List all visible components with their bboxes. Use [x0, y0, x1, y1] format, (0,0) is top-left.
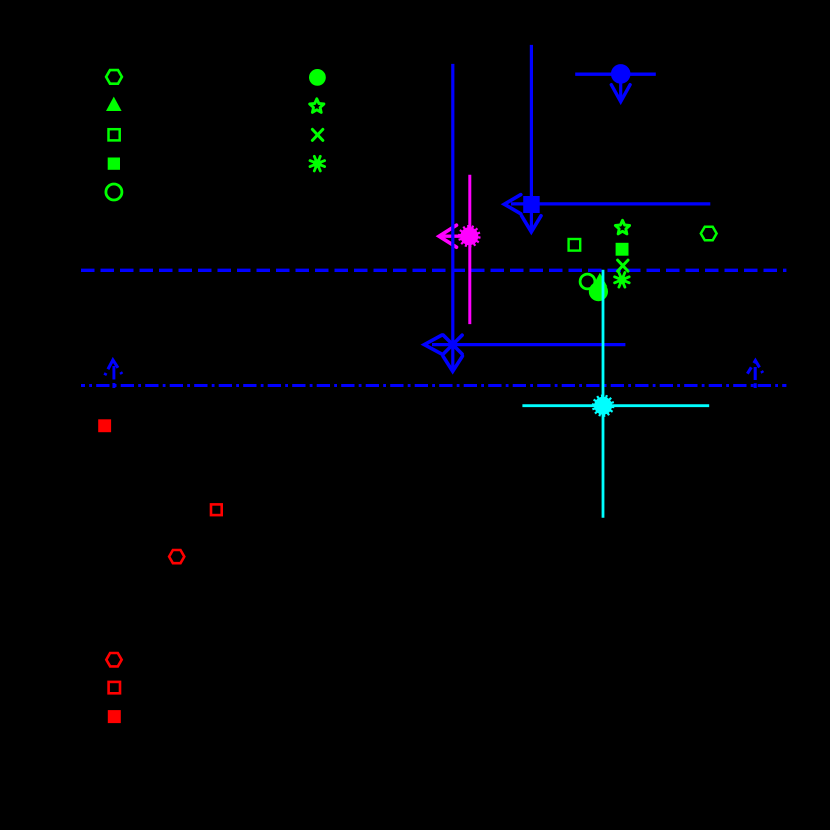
- blue square point: horizontal line to the right: [511, 202, 710, 205]
- blue square point: vertical error line: [530, 45, 533, 231]
- red data: open square (bottom): [109, 682, 120, 693]
- green data: filled square: [616, 243, 629, 256]
- red data: filled square (top): [98, 419, 111, 432]
- legend marker: green X cross: [312, 129, 322, 140]
- blue lower-limit up arrow (left): stem: [112, 366, 115, 388]
- blue lower-limit up arrow (right): head (dash-dot fragmented): [746, 361, 764, 376]
- green data: filled triangle: [592, 273, 607, 287]
- blue square point: down arrow head: [522, 216, 541, 232]
- legend marker: green open circle: [106, 184, 122, 200]
- legend marker: green open square: [109, 129, 120, 140]
- legend marker: green open hexagon: [106, 70, 122, 84]
- blue X point: horizontal line to the right: [432, 343, 625, 346]
- magenta point: left arrow stem: [441, 234, 461, 237]
- blue X point: vertical error line: [451, 64, 454, 370]
- red data: filled square (bottom): [108, 710, 121, 723]
- magenta point: sun marker (filled circle with spikes): [460, 227, 478, 245]
- blue X point: X marker: [443, 335, 462, 354]
- green data: open star: [615, 220, 629, 234]
- legend marker: green filled triangle: [106, 97, 122, 111]
- cyan point: horizontal error bar: [522, 404, 709, 407]
- legend marker: green 8-ray asterisk: [310, 156, 325, 171]
- green data: open circle: [580, 274, 595, 289]
- legend marker: green filled square: [108, 158, 120, 170]
- red data: open square (middle): [211, 504, 222, 515]
- blue X point: left arrow head: [424, 335, 442, 354]
- green data: filled circle: [589, 282, 608, 301]
- legend marker: green filled circle: [309, 69, 326, 86]
- cyan point: vertical error bar: [602, 270, 605, 518]
- blue X point: down arrow head: [443, 356, 462, 371]
- blue upper-limit point: down arrow stem: [619, 74, 622, 101]
- green data: X cross: [618, 260, 628, 271]
- blue dashed horizontal line: [81, 269, 786, 272]
- magenta point: vertical error line: [468, 175, 471, 324]
- green data: 8-ray asterisk: [615, 273, 630, 288]
- blue upper-limit point: down arrow head: [611, 85, 630, 102]
- blue upper-limit point: horizontal error bar: [575, 72, 656, 75]
- blue dash-dot horizontal line: [81, 384, 786, 387]
- red data: open hexagon (upper): [169, 550, 184, 563]
- blue upper-limit point: filled circle marker: [611, 64, 631, 84]
- blue square point: filled square marker: [523, 196, 540, 213]
- blue lower-limit up arrow (right): stem: [754, 367, 757, 388]
- green data: open hexagon: [701, 227, 717, 241]
- blue square point: left arrow head: [504, 195, 521, 214]
- blue lower-limit up arrow (left): head (dash-dot fragmented): [105, 360, 122, 375]
- green data: open square: [569, 239, 581, 251]
- cyan point: sun marker (filled circle with spikes): [594, 397, 612, 415]
- red data: open hexagon (lower): [106, 653, 121, 666]
- magenta point: left arrow head: [439, 225, 457, 247]
- legend marker: green open star: [310, 99, 324, 113]
